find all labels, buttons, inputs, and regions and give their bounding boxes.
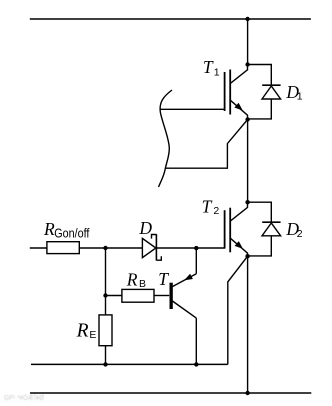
svg-text:GP²·*#ÖÆÎ¥Ø: GP²·*#ÖÆÎ¥Ø xyxy=(4,393,44,402)
svg-text:T: T xyxy=(202,196,213,216)
svg-text:B: B xyxy=(139,278,146,290)
node: T2 gate junction xyxy=(194,246,198,250)
node: RE bottom junction xyxy=(103,362,107,366)
label T2 xyxy=(202,196,220,216)
node: T2 collector junction xyxy=(245,200,249,204)
wire: phase mid vertical T1 emitter to T2 collector xyxy=(247,120,249,203)
label T (transistor) xyxy=(158,269,169,289)
wire: T1 gate lead xyxy=(161,108,225,110)
wire: T2 emitter return diagonal to aux rail xyxy=(228,256,248,364)
label T1 xyxy=(203,57,220,78)
svg-text:Gon/off: Gon/off xyxy=(54,226,90,240)
label RB xyxy=(126,270,146,290)
transistor T (pnp) xyxy=(170,274,197,318)
node: junction top rail / phase-leg xyxy=(245,17,249,21)
igbt T2 xyxy=(225,202,248,256)
watermark xyxy=(4,393,44,402)
svg-text:2: 2 xyxy=(213,205,219,217)
svg-text:R: R xyxy=(76,321,89,342)
wire: break squiggle (torn-off gate drive) xyxy=(159,90,173,187)
wire: tap to RB xyxy=(106,295,122,297)
svg-text:1: 1 xyxy=(297,91,303,103)
wire: T2 emitter down to bottom rail xyxy=(247,256,249,393)
wire: top rail to T1 collector xyxy=(247,19,249,65)
node: transistor collector junction xyxy=(194,362,198,366)
resistor RGon/off xyxy=(47,242,79,254)
label D2 xyxy=(285,219,302,240)
label D xyxy=(138,218,152,238)
node: T1 emitter junction xyxy=(245,117,249,121)
node: RB tap junction xyxy=(103,293,107,297)
wire: top DC bus rail xyxy=(30,18,311,20)
wire: RE to aux rail xyxy=(105,346,107,365)
svg-text:E: E xyxy=(89,329,96,341)
diode D (schottky) xyxy=(142,234,161,260)
label D1 xyxy=(285,82,302,102)
wire: bottom DC bus rail xyxy=(30,392,311,394)
wire: branch down to RB tap xyxy=(105,248,107,315)
label RGon/off xyxy=(43,219,90,240)
igbt T1 xyxy=(225,65,248,120)
svg-text:T: T xyxy=(203,57,214,77)
wire: aux emitter return rail xyxy=(31,363,228,365)
wire: RB to transistor base xyxy=(154,295,169,297)
wire: RGon/off to diode D xyxy=(79,247,142,249)
svg-text:R: R xyxy=(126,270,138,290)
wire: T2 gate node down to transistor emitter xyxy=(195,248,197,274)
svg-text:1: 1 xyxy=(214,67,220,79)
node: T1 collector junction xyxy=(245,62,249,66)
resistor RE xyxy=(99,315,112,346)
wire: diode D to T2 gate xyxy=(156,247,224,249)
svg-text:D: D xyxy=(138,218,152,238)
node: bottom rail junction xyxy=(245,391,249,395)
label RE xyxy=(76,321,97,342)
wire: transistor collector down to aux rail xyxy=(195,318,197,364)
svg-text:R: R xyxy=(43,219,55,239)
svg-text:T: T xyxy=(158,269,169,289)
node: junction RGon/off / RB branch xyxy=(103,246,107,250)
svg-text:2: 2 xyxy=(297,228,303,240)
diode D2 (antiparallel with T2) xyxy=(248,202,281,256)
wire: T1 emitter return to break xyxy=(166,120,248,169)
resistor RB xyxy=(122,289,154,302)
node: T2 emitter junction xyxy=(245,254,249,258)
diode D1 (antiparallel with T1) xyxy=(248,65,281,119)
wire: gate input lead xyxy=(30,247,47,249)
